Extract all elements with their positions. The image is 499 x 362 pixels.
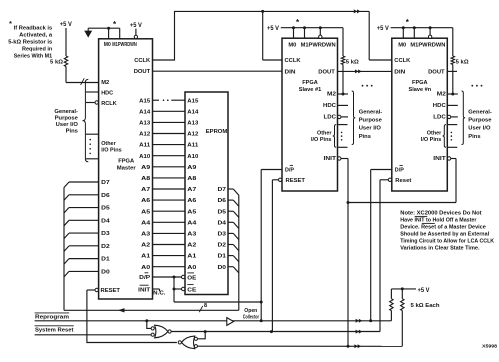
svg-text:M1PWRDWN: M1PWRDWN — [112, 42, 137, 48]
svg-text:M1PWRDWN: M1PWRDWN — [301, 43, 336, 49]
svg-text:Device. Reset of a Master Devi: Device. Reset of a Master Device — [400, 225, 486, 231]
svg-text:User I/O: User I/O — [56, 122, 79, 128]
svg-text:Collector: Collector — [243, 315, 259, 321]
svg-text:Activated, a: Activated, a — [19, 32, 53, 38]
svg-text:A12: A12 — [139, 132, 151, 138]
svg-text:DOUT: DOUT — [134, 69, 151, 75]
svg-text:Master: Master — [117, 166, 137, 172]
svg-text:D1: D1 — [218, 254, 227, 260]
svg-text:Purpose: Purpose — [468, 118, 492, 124]
svg-text:Slave #1: Slave #1 — [299, 87, 322, 93]
svg-text:A14: A14 — [139, 109, 151, 115]
svg-text:LDC: LDC — [433, 115, 446, 121]
svg-text:X5998: X5998 — [482, 344, 498, 349]
svg-text:D4: D4 — [101, 218, 110, 224]
svg-text:DOUT: DOUT — [318, 70, 335, 76]
svg-text:HDC: HDC — [323, 103, 337, 109]
svg-text:Pins: Pins — [468, 134, 480, 140]
svg-text:DOUT: DOUT — [428, 70, 445, 76]
svg-text:Timing Circuit to Allow for LC: Timing Circuit to Allow for LCA CCLK — [400, 239, 494, 245]
svg-text:Other: Other — [427, 130, 442, 136]
svg-text:CE: CE — [187, 287, 196, 293]
svg-text:A3: A3 — [141, 232, 151, 238]
svg-text:General-: General- — [359, 110, 383, 116]
svg-text:CCLK: CCLK — [134, 58, 151, 64]
svg-text:Required in: Required in — [22, 46, 53, 52]
svg-text:Series With M1: Series With M1 — [14, 53, 53, 59]
svg-text:Pins: Pins — [359, 134, 371, 140]
svg-text:Have INIT to Hold Off a Master: Have INIT to Hold Off a Master — [400, 218, 477, 224]
svg-text:A10: A10 — [139, 154, 151, 160]
svg-text:D6: D6 — [101, 193, 110, 199]
svg-text:DIN: DIN — [394, 70, 405, 76]
svg-text:M0: M0 — [104, 42, 112, 48]
svg-text:A0: A0 — [187, 265, 197, 271]
svg-text:A2: A2 — [187, 243, 197, 249]
svg-text:A9: A9 — [141, 165, 151, 171]
svg-text:A1: A1 — [187, 254, 197, 260]
svg-text:Reprogram: Reprogram — [35, 314, 69, 320]
svg-text:D6: D6 — [218, 198, 227, 204]
svg-text:D2: D2 — [101, 244, 110, 250]
svg-text:A14: A14 — [187, 109, 199, 115]
svg-text:A6: A6 — [141, 198, 151, 204]
svg-text:M0: M0 — [398, 43, 407, 49]
svg-text:M2: M2 — [101, 80, 110, 86]
svg-text:A4: A4 — [187, 220, 197, 226]
svg-text:A7: A7 — [141, 187, 151, 193]
svg-text:D5: D5 — [101, 206, 110, 212]
svg-text:D5: D5 — [218, 209, 227, 215]
svg-text:D/P: D/P — [139, 275, 150, 281]
svg-text:+5 V: +5 V — [267, 26, 279, 32]
svg-text:A15: A15 — [139, 98, 151, 104]
svg-text:General-: General- — [54, 109, 78, 115]
svg-text:D2: D2 — [218, 243, 227, 249]
svg-text:CCLK: CCLK — [394, 58, 411, 64]
svg-text:A15: A15 — [187, 98, 199, 104]
svg-text:Should be Asserted by an Exter: Should be Asserted by an External — [400, 232, 489, 238]
svg-text:A1: A1 — [141, 254, 151, 260]
svg-text:A6: A6 — [187, 198, 197, 204]
svg-text:I/O Pins: I/O Pins — [101, 148, 122, 154]
svg-text:A5: A5 — [187, 209, 197, 215]
svg-text:+5 V: +5 V — [418, 288, 430, 294]
svg-text:D1: D1 — [101, 257, 110, 263]
svg-text:INIT: INIT — [433, 156, 446, 162]
svg-text:D7: D7 — [218, 187, 227, 193]
svg-text:INIT: INIT — [324, 156, 337, 162]
svg-text:A11: A11 — [187, 143, 199, 149]
svg-text:OE: OE — [187, 276, 196, 282]
svg-text:D3: D3 — [218, 232, 227, 238]
svg-text:M0: M0 — [288, 43, 297, 49]
svg-text:8: 8 — [204, 303, 207, 309]
svg-text:FPGA: FPGA — [412, 80, 428, 86]
svg-text:I/O Pins: I/O Pins — [311, 137, 332, 143]
svg-text:M1PWRDWN: M1PWRDWN — [410, 43, 445, 49]
svg-text:System Reset: System Reset — [35, 327, 74, 333]
svg-text:EPROM: EPROM — [206, 129, 228, 135]
svg-text:Purpose: Purpose — [359, 118, 383, 124]
svg-text:I/O Pins: I/O Pins — [421, 137, 442, 143]
svg-text:M2: M2 — [327, 92, 337, 98]
svg-text:A10: A10 — [187, 154, 199, 160]
svg-text:M2: M2 — [437, 92, 447, 98]
svg-text:A4: A4 — [141, 220, 151, 226]
svg-text:A2: A2 — [141, 243, 151, 249]
svg-text:User I/O: User I/O — [359, 126, 382, 132]
svg-text:HDC: HDC — [101, 90, 114, 96]
svg-text:+5 V: +5 V — [60, 22, 72, 28]
svg-text:Open: Open — [244, 308, 257, 314]
svg-text:A13: A13 — [139, 121, 151, 127]
svg-text:5 kΩ: 5 kΩ — [50, 59, 63, 65]
svg-text:DIN: DIN — [285, 70, 296, 76]
svg-text:HDC: HDC — [433, 103, 447, 109]
svg-text:If Readback is: If Readback is — [14, 25, 53, 31]
svg-text:FPGA: FPGA — [302, 80, 318, 86]
svg-text:User I/O: User I/O — [468, 126, 491, 132]
svg-text:D/P: D/P — [285, 168, 294, 174]
svg-text:Slave #n: Slave #n — [409, 87, 432, 93]
svg-text:N.C.: N.C. — [153, 290, 166, 296]
svg-text:A5: A5 — [141, 209, 151, 215]
svg-text:D3: D3 — [101, 231, 110, 237]
svg-text:5 kΩ: 5 kΩ — [456, 59, 469, 65]
svg-text:+5 V: +5 V — [130, 23, 142, 29]
svg-text:A3: A3 — [187, 232, 197, 238]
svg-text:D0: D0 — [218, 265, 227, 271]
svg-text:A8: A8 — [141, 176, 151, 182]
svg-text:FPGA: FPGA — [118, 159, 135, 165]
svg-text:Pins: Pins — [66, 129, 78, 135]
svg-text:A11: A11 — [139, 143, 151, 149]
svg-text:A0: A0 — [141, 265, 151, 271]
svg-text:*: * — [9, 21, 12, 28]
svg-text:Note: XC2000 Devices Do Not: Note: XC2000 Devices Do Not — [400, 211, 481, 217]
svg-text:5 kΩ: 5 kΩ — [346, 59, 359, 65]
svg-text:RESET: RESET — [286, 178, 306, 184]
svg-text:5-kΩ Resistor is: 5-kΩ Resistor is — [8, 39, 52, 45]
svg-text:INIT: INIT — [138, 287, 150, 293]
svg-text:D/P: D/P — [395, 168, 404, 174]
svg-text:A12: A12 — [187, 132, 199, 138]
svg-text:Other: Other — [317, 130, 332, 136]
svg-text:D0: D0 — [101, 269, 110, 275]
svg-text:LDC: LDC — [324, 115, 337, 121]
svg-text:RESET: RESET — [101, 288, 121, 294]
svg-text:A13: A13 — [187, 121, 199, 127]
svg-text:RCLK: RCLK — [101, 101, 117, 107]
svg-text:A8: A8 — [187, 176, 197, 182]
svg-text:+5 V: +5 V — [377, 26, 389, 32]
svg-text:CCLK: CCLK — [285, 58, 302, 64]
svg-text:D4: D4 — [218, 220, 227, 226]
svg-text:A9: A9 — [187, 165, 197, 171]
svg-text:A7: A7 — [187, 187, 197, 193]
svg-text:5 kΩ Each: 5 kΩ Each — [411, 303, 440, 309]
svg-text:Purpose: Purpose — [55, 116, 79, 122]
svg-text:General-: General- — [468, 110, 492, 116]
svg-text:Other: Other — [101, 141, 116, 147]
svg-text:Variations in Clear State Time: Variations in Clear State Time. — [400, 246, 480, 252]
svg-text:D7: D7 — [101, 180, 110, 186]
svg-text:Reset: Reset — [395, 178, 411, 184]
